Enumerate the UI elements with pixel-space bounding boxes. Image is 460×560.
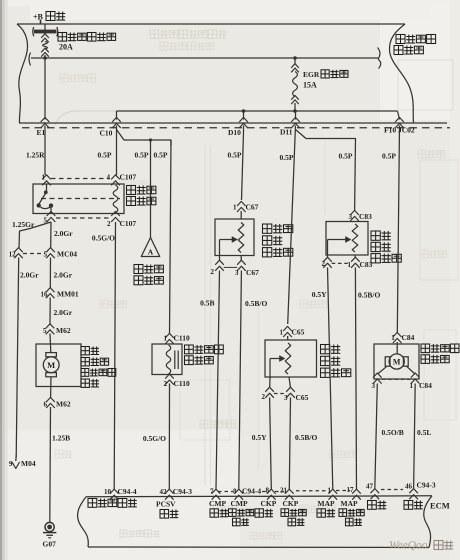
svg-text:8: 8 <box>233 488 237 496</box>
link line C67 pins <box>224 266 238 268</box>
label 0.5P (F10) <box>382 152 396 161</box>
wire D11 to CKP pin1 <box>288 126 296 325</box>
off-page triangle A (from rear O2 sensor) <box>141 238 159 257</box>
solenoid valve PCSV (purge air) <box>152 344 182 375</box>
dashed link C84 pins <box>382 378 411 380</box>
label 0.5G/O <box>92 234 115 243</box>
faint print bleed-through ghosts <box>55 30 458 539</box>
svg-text:PCSV: PCSV <box>156 500 176 509</box>
svg-text:0.5P: 0.5P <box>382 152 396 161</box>
label MAP sensor ground <box>339 499 364 526</box>
svg-text:0.5B: 0.5B <box>200 299 214 308</box>
svg-text:6: 6 <box>44 401 48 409</box>
relay pin5 connector <box>44 211 56 224</box>
watermark WeeQoo <box>389 540 453 552</box>
label idle speed control actuator <box>421 344 459 363</box>
wire CKP pin3 to ECM 21 <box>289 398 317 490</box>
connector C84 pin1b <box>410 373 433 390</box>
label D11 <box>280 128 293 137</box>
svg-text:0.5P: 0.5P <box>135 151 149 160</box>
label C10 <box>100 129 113 138</box>
junction box bottom edge <box>19 122 447 124</box>
connector D10 <box>239 117 248 128</box>
svg-text:2: 2 <box>211 268 215 276</box>
svg-text:C110: C110 <box>174 379 191 388</box>
connector C83 pin3 <box>349 210 373 221</box>
ECM pin 21 connector <box>280 487 294 500</box>
motor M2 idle speed control actuator <box>374 342 419 379</box>
svg-text:0.5L: 0.5L <box>417 428 431 437</box>
wire C10 drop and branch <box>117 126 172 335</box>
svg-text:MC04: MC04 <box>57 250 77 259</box>
svg-text:M: M <box>47 360 55 370</box>
svg-text:3: 3 <box>235 269 239 277</box>
label camshaft position sensor <box>263 224 293 257</box>
svg-text:M: M <box>393 358 401 367</box>
svg-text:0.5P: 0.5P <box>280 153 294 162</box>
svg-text:C107: C107 <box>120 219 137 228</box>
motor M1 fuel sender and fuel pump <box>36 344 81 387</box>
wire AFS pin2 to ECM 1 <box>312 268 333 490</box>
label open <box>404 501 423 510</box>
svg-text:3: 3 <box>372 382 376 390</box>
svg-text:0.5G/O: 0.5G/O <box>92 234 115 243</box>
ECM pin 42 connector <box>160 487 193 500</box>
label from rear oxygen sensor <box>134 265 163 285</box>
svg-text:2: 2 <box>262 393 266 401</box>
connector C110 pin1 <box>164 333 191 344</box>
connector C83 pin1 <box>348 255 373 269</box>
connector C107 dashed link (bottom) <box>56 217 109 219</box>
svg-text:3: 3 <box>284 394 288 402</box>
svg-text:WeeQoo: WeeQoo <box>389 540 428 552</box>
wire into CKP box <box>287 336 289 340</box>
right wavy border of engine-room junction box <box>389 24 413 123</box>
connector 12 (to M04) <box>9 248 23 259</box>
svg-text:D10: D10 <box>228 128 241 137</box>
wire ISC pin1 to ECM 46 <box>414 384 432 490</box>
label close <box>368 501 387 510</box>
svg-text:C107: C107 <box>120 173 137 182</box>
label fuel pump control <box>88 499 137 508</box>
wire PCSV to ECM 42 <box>143 384 170 490</box>
ECM pin 47 connector <box>366 483 379 500</box>
svg-text:1: 1 <box>328 487 332 495</box>
label MAP signal <box>317 499 335 517</box>
bus2 right break mark <box>378 48 381 69</box>
svg-text:+B: +B <box>33 13 44 22</box>
svg-text:C65: C65 <box>296 393 309 402</box>
wire CKP pin2 to ECM 8 <box>252 398 272 490</box>
label engine room junction box <box>394 35 436 55</box>
svg-text:ECM: ECM <box>430 501 450 511</box>
wire E1 to relay pin1 <box>26 126 45 176</box>
svg-text:2: 2 <box>164 380 168 388</box>
svg-text:2.0Gr: 2.0Gr <box>54 308 73 317</box>
ECM pin 7 connector <box>210 488 220 500</box>
off-page arrow M04 <box>9 455 36 469</box>
wire into CMP box <box>240 211 242 219</box>
svg-text:8: 8 <box>266 487 270 495</box>
svg-text:A: A <box>148 248 154 257</box>
svg-text:1: 1 <box>42 174 46 182</box>
svg-text:MAP: MAP <box>341 499 358 508</box>
svg-text:1.25B: 1.25B <box>52 434 70 443</box>
wire M62 to ground G07 <box>50 407 70 522</box>
wire top +B power bus <box>17 23 405 25</box>
ECM right wavy edge <box>424 496 432 548</box>
sensor MAP air flow <box>326 222 368 256</box>
wire D10 to CMP pin1 <box>242 126 244 201</box>
connector E1 <box>41 117 50 128</box>
label C94-3 right <box>417 481 436 490</box>
svg-text:CKP: CKP <box>283 499 299 508</box>
svg-text:0.5O/B: 0.5O/B <box>382 428 404 437</box>
connector C65 pin1 <box>280 326 305 337</box>
label 0.5P (D11) <box>280 153 294 162</box>
ECM pin 8 connector <box>233 487 261 500</box>
svg-text:2: 2 <box>322 260 326 268</box>
svg-text:C67: C67 <box>246 203 259 212</box>
svg-text:0.5G/O: 0.5G/O <box>143 434 166 443</box>
connector M62 pin6 <box>44 397 71 408</box>
wire MC04 to MM01 <box>50 258 72 289</box>
dashed link C65 pins <box>274 393 286 395</box>
relay pin1 connector <box>42 174 51 186</box>
svg-text:C84: C84 <box>402 333 415 342</box>
ECM pin 1 connector <box>328 487 338 500</box>
wire CMP pin2 to ECM 7 <box>200 271 219 490</box>
svg-text:1: 1 <box>348 261 352 269</box>
fuse EGR 15A <box>291 56 299 111</box>
svg-text:20A: 20A <box>59 43 73 52</box>
left wavy border of engine-room junction box <box>17 24 28 123</box>
svg-text:21: 21 <box>280 487 288 495</box>
connector C83 pin2 <box>322 255 332 268</box>
label CMP sensor ground <box>229 499 254 526</box>
sensor CMP camshaft position <box>215 219 254 256</box>
label crankshaft position sensor <box>321 345 351 378</box>
svg-text:MAP: MAP <box>318 499 335 508</box>
label fuel-pump fuse <box>58 33 116 52</box>
svg-text:MM01: MM01 <box>57 290 79 299</box>
svg-text:1: 1 <box>233 204 237 212</box>
svg-text:CKP: CKP <box>261 499 277 508</box>
connector C84 pin1 <box>391 332 414 343</box>
svg-text:C94-3: C94-3 <box>173 487 192 496</box>
svg-text:C65: C65 <box>292 328 305 337</box>
svg-text:16: 16 <box>41 291 49 299</box>
label 0.5P (oxy) <box>135 151 149 160</box>
svg-text:CMP: CMP <box>209 499 226 508</box>
svg-text:C110: C110 <box>174 334 191 343</box>
wire D11 branch to AFS <box>296 130 356 212</box>
label F10 JC02 <box>384 126 415 135</box>
relay RLY fuel-pump box <box>33 184 124 214</box>
connector C10 <box>112 117 121 128</box>
svg-text:7: 7 <box>210 488 214 496</box>
ECM pin 46 connector <box>405 483 418 500</box>
connector MC04 <box>44 248 78 259</box>
svg-text:C83: C83 <box>359 212 372 221</box>
svg-text:0.5P: 0.5P <box>98 151 112 160</box>
svg-text:0.5Y: 0.5Y <box>312 290 327 299</box>
svg-text:M62: M62 <box>56 326 71 335</box>
svg-text:CMP: CMP <box>231 499 248 508</box>
svg-text:42: 42 <box>160 488 168 496</box>
dashed link 12 to MC04 <box>23 253 45 255</box>
connector M62 pin5 <box>43 324 71 335</box>
label CKP signal <box>255 499 277 517</box>
ECM top edge <box>86 496 432 497</box>
svg-text:0.5B/O: 0.5B/O <box>295 433 317 442</box>
svg-text:D11: D11 <box>280 128 293 137</box>
connector row dashed line <box>22 127 450 129</box>
connector C107 dashed link (top) <box>51 178 110 180</box>
svg-text:C94-4: C94-4 <box>242 487 261 496</box>
wire M62 into pump box <box>49 334 52 353</box>
wire F10 to ISC pin1 <box>397 126 399 334</box>
svg-text:M62: M62 <box>56 400 71 409</box>
svg-text:0.5P: 0.5P <box>228 151 242 160</box>
svg-text:46: 46 <box>405 483 413 491</box>
connector C65 pin2 <box>262 377 274 401</box>
label 0.5P (D10) <box>228 151 242 160</box>
label ECM <box>430 501 450 511</box>
svg-text:0.5B/O: 0.5B/O <box>358 291 380 300</box>
svg-text:C83: C83 <box>360 260 373 269</box>
svg-text:15A: 15A <box>303 81 317 90</box>
svg-text:C84: C84 <box>419 381 432 390</box>
svg-text:5: 5 <box>44 251 48 259</box>
connector D11 <box>291 117 300 128</box>
label air flow sensor <box>371 231 401 263</box>
wire AFS pin1 to ECM 17 <box>355 268 380 490</box>
connector C67 pin1 <box>233 201 259 212</box>
label 0.5P (relay) <box>98 151 112 160</box>
label EGR fuse <box>303 70 348 90</box>
sensor CKP crankshaft position <box>265 340 317 377</box>
svg-text:47: 47 <box>366 483 374 491</box>
wire pin5 to MC04 <box>51 222 74 248</box>
label CKP sensor ground <box>281 499 306 526</box>
label purge air solenoid valve <box>185 345 224 365</box>
connector C110 pin2 <box>164 374 191 388</box>
svg-text:0.5P: 0.5P <box>339 152 353 161</box>
ECM left wavy edge <box>78 497 89 547</box>
connector C65 pin3 <box>284 377 309 402</box>
ECM pin-pair dashed links <box>218 490 403 492</box>
svg-text:1: 1 <box>410 382 414 390</box>
svg-text:12: 12 <box>9 252 16 259</box>
svg-text:2.0Gr: 2.0Gr <box>20 271 39 280</box>
relay switch contacts <box>37 184 54 214</box>
svg-text:4: 4 <box>107 174 111 182</box>
ground G07 <box>43 522 57 548</box>
label D10 <box>228 128 241 137</box>
label PCSV control <box>156 500 178 519</box>
connector C67 pin3 <box>235 256 259 278</box>
ECM pin 17 connector <box>347 486 361 500</box>
svg-text:0.5Y: 0.5Y <box>252 433 267 442</box>
wire 12 down to M04 arrow <box>16 258 39 458</box>
relay pin2 connector <box>107 211 136 228</box>
svg-text:2: 2 <box>107 220 111 228</box>
label CMP signal <box>209 499 228 517</box>
svg-text:1: 1 <box>164 335 168 343</box>
relay pin4 connector <box>107 173 137 186</box>
svg-text:2.0Gr: 2.0Gr <box>54 271 73 280</box>
label fuel sender and pump motor <box>81 347 116 388</box>
svg-text:1: 1 <box>391 334 395 342</box>
svg-text:10: 10 <box>104 488 112 496</box>
bus2 left break mark <box>29 53 31 66</box>
ECM pin 8b connector <box>266 487 276 500</box>
svg-text:17: 17 <box>347 486 355 494</box>
svg-text:1.25Gr: 1.25Gr <box>12 220 35 229</box>
wire fuse to E1 <box>43 55 47 120</box>
dashed link C83 pins <box>332 262 350 264</box>
svg-text:EGR: EGR <box>303 70 320 79</box>
relay coil <box>113 185 118 213</box>
svg-text:1: 1 <box>280 329 284 337</box>
fuse F-pump 20A (fusible link) <box>33 24 58 57</box>
label fuel pump relay <box>127 186 156 206</box>
svg-text:1.25R: 1.25R <box>26 151 45 160</box>
connector MM01 <box>41 288 79 299</box>
wire pump box to M62 pin6 <box>50 377 52 399</box>
svg-text:C94-4: C94-4 <box>118 487 137 496</box>
ECM bottom edge <box>88 546 429 549</box>
svg-text:2.0Gr: 2.0Gr <box>54 229 73 238</box>
svg-text:0.5B/O: 0.5B/O <box>245 299 267 308</box>
connector C84 pin3 <box>372 373 382 390</box>
ECM pin 10 connector <box>104 487 137 500</box>
wire bus3 (fused feed inside box) <box>117 109 400 119</box>
wire CMP pin3 to ECM 8 <box>239 271 268 490</box>
label 0.5P (AFS) <box>339 152 353 161</box>
svg-text:9: 9 <box>9 460 13 468</box>
label E1 <box>37 128 46 137</box>
svg-text:C67: C67 <box>246 268 259 277</box>
relay internal dashed link <box>41 198 120 200</box>
connector C67 pin2 <box>211 256 224 277</box>
svg-text:G07: G07 <box>43 540 57 549</box>
svg-text:C10: C10 <box>100 129 113 138</box>
svg-text:C94-3: C94-3 <box>417 481 436 490</box>
svg-text:E1: E1 <box>37 128 46 137</box>
wire ISC pin3 to ECM 47 <box>375 384 404 490</box>
wire relay pin2 to ECM 10 <box>114 222 115 489</box>
connector F10 JC02 <box>395 117 404 128</box>
wire MM01 to M62 <box>50 298 73 326</box>
label +B power source <box>33 12 65 25</box>
wire bus2 <box>31 57 378 59</box>
svg-text:0.5P: 0.5P <box>154 151 168 160</box>
label 0.5P (pcsv) <box>154 151 168 160</box>
wire pin5 branch to M04 drop <box>12 220 51 249</box>
svg-text:3: 3 <box>349 213 353 221</box>
svg-text:M04: M04 <box>21 459 36 468</box>
svg-text:5: 5 <box>43 327 47 335</box>
